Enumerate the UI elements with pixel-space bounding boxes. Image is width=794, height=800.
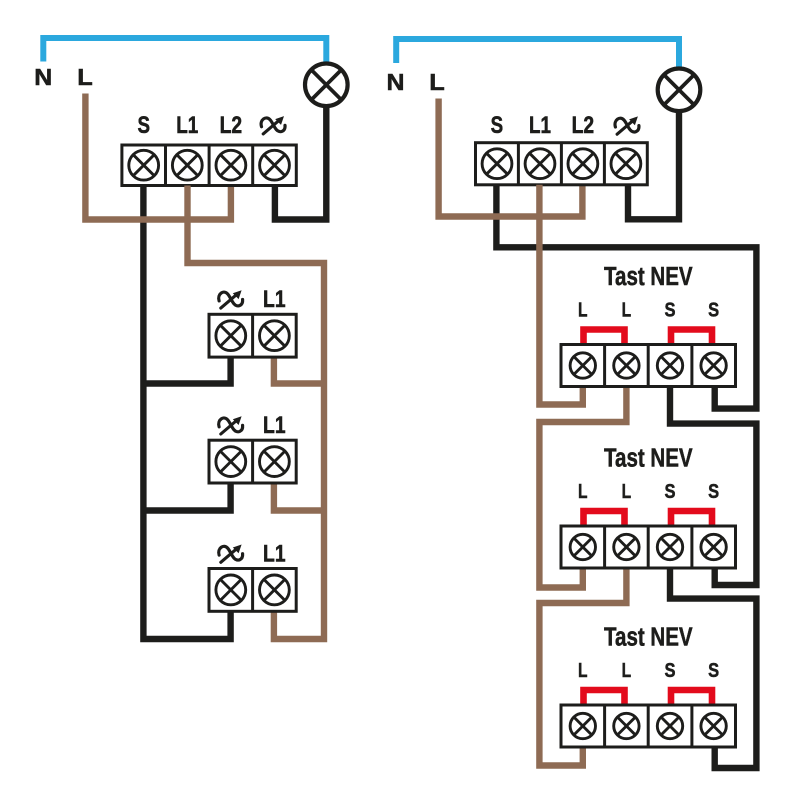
svg-text:L1: L1	[176, 112, 198, 139]
svg-text:S: S	[491, 112, 504, 139]
wire lamp black (right)	[628, 111, 679, 219]
wire L1 brown bus (left)	[188, 186, 325, 640]
terminal L2 (right main)	[568, 149, 598, 179]
svg-text:L2: L2	[572, 112, 595, 139]
cell dividers (left main block)	[164, 145, 167, 186]
impulse switch module Tast NEV 3	[561, 622, 736, 747]
impulse switch module Tast NEV 2	[561, 443, 736, 568]
impulse switch module Tast NEV 1	[561, 261, 736, 386]
svg-text:L1: L1	[529, 112, 551, 139]
svg-text:N: N	[34, 64, 52, 90]
wire brown segment B (right)	[539, 386, 626, 587]
wire lamp black (left)	[275, 106, 326, 220]
wire branch row1 brown (left)	[274, 357, 324, 383]
terminal S (right main)	[482, 149, 512, 179]
wire N blue (left)	[43, 38, 326, 63]
svg-text:S: S	[137, 112, 150, 139]
switch block 1 (left)	[209, 286, 296, 357]
wire branch row1 black (left)	[143, 357, 230, 383]
wire branch row2 brown (left)	[274, 483, 324, 511]
terminal L1 (left main)	[172, 150, 202, 180]
wire black segment C (right)	[670, 568, 756, 768]
terminal sym (left main)	[260, 150, 290, 180]
terminal S (left main)	[129, 150, 159, 180]
label dimmer symbol (right block)	[615, 116, 639, 134]
svg-text:L: L	[77, 64, 93, 90]
label dimmer symbol (left block)	[261, 116, 285, 134]
wire S bus black (left)	[143, 186, 230, 640]
wire N blue (right)	[396, 39, 679, 68]
lamp E2 (right)	[658, 69, 701, 112]
lamp E1 (left)	[305, 64, 348, 107]
terminal L2 (left main)	[216, 150, 246, 180]
wire brown segment C (right)	[539, 568, 626, 765]
terminal L1 (right main)	[525, 149, 555, 179]
wire L brown to L2 terminal (left)	[85, 94, 231, 220]
switch block 3 (left)	[209, 540, 296, 611]
wire black segment B (right)	[670, 386, 756, 585]
main terminal block (right) outline	[476, 143, 648, 185]
main terminal block (left) outline	[122, 145, 296, 186]
wire branch row2 black (left)	[143, 483, 230, 511]
switch block 2 (left)	[209, 412, 296, 483]
wire S black to bus (right)	[496, 185, 756, 409]
svg-text:L: L	[429, 69, 445, 95]
terminal sym (right main)	[611, 149, 641, 179]
svg-text:L2: L2	[220, 112, 243, 139]
svg-text:N: N	[387, 69, 405, 95]
wire L1 brown segment A (right)	[539, 185, 582, 405]
wire L brown to L2 terminal (right)	[439, 99, 583, 217]
cell dividers (right main block)	[517, 143, 520, 185]
